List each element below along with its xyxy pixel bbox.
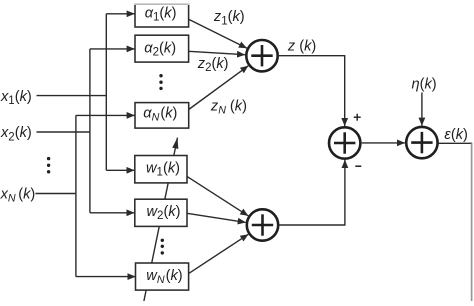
wire alphaN to sum1	[189, 66, 249, 110]
wire into alphaN	[76, 114, 135, 116]
wire sum4 output epsilon	[438, 142, 472, 144]
svg-text:η(k): η(k)	[412, 76, 437, 92]
wire into alpha2	[90, 48, 135, 50]
box w2	[135, 199, 187, 226]
wire w2 to sum2	[187, 213, 246, 222]
dots between alpha2 and alphaN	[159, 74, 162, 90]
box alphaN	[135, 103, 189, 129]
wire x1 vertical bus	[105, 14, 107, 171]
wire eta into sum4	[421, 93, 423, 126]
svg-text:x1(k): x1(k)	[0, 89, 32, 107]
summing junction sum4	[406, 127, 437, 158]
wire into w1	[106, 169, 134, 171]
wire alpha2 to sum1	[189, 51, 245, 54]
svg-text:z1(k): z1(k)	[213, 9, 245, 27]
wire x2 horizontal	[37, 131, 90, 133]
wire feedback down right edge	[471, 143, 473, 301]
svg-text:x2(k): x2(k)	[0, 125, 32, 143]
svg-text:w2(k): w2(k)	[147, 204, 181, 222]
wire x2 vertical bus	[89, 49, 91, 213]
box wN	[136, 263, 189, 290]
svg-text:ε(k): ε(k)	[444, 127, 467, 143]
wire xN vertical bus	[75, 115, 77, 276]
wire sum3 to sum4	[362, 142, 405, 144]
wire into alpha1	[106, 13, 134, 15]
minus sign at sum3 bottom input	[355, 165, 361, 167]
svg-text:z2(k): z2(k)	[197, 56, 229, 74]
box w1	[135, 156, 187, 183]
wire w1 to sum2	[187, 176, 248, 216]
wire adjustability arrow through w boxes	[144, 138, 178, 301]
wire xN horizontal	[35, 193, 76, 195]
summing junction sum1	[246, 40, 277, 71]
dots between w2 and wN	[161, 239, 164, 255]
wire into w2	[90, 212, 134, 214]
svg-text:α2(k): α2(k)	[144, 40, 176, 58]
svg-text:w1(k): w1(k)	[146, 160, 180, 178]
svg-text:αN(k): αN(k)	[143, 105, 177, 123]
summing junction sum2	[247, 209, 278, 240]
svg-text:α1(k): α1(k)	[145, 5, 177, 23]
plus sign at sum3 top input	[354, 114, 361, 121]
dots between x2 and xN	[47, 157, 50, 174]
wire wN to sum2	[189, 234, 248, 273]
wire alpha1 to sum1	[189, 19, 247, 48]
box alpha2	[135, 35, 189, 62]
wire sum2 to sum3 (right then up)	[279, 224, 345, 226]
svg-text:xN(k): xN(k)	[0, 186, 35, 204]
svg-text:z (k): z (k)	[287, 38, 316, 54]
wire x1 horizontal	[37, 95, 107, 97]
box alpha1	[134, 4, 189, 27]
summing junction sum3	[329, 127, 360, 158]
wire into wN	[76, 276, 136, 278]
wire sum1 to sum3 (right then down)	[278, 55, 345, 57]
